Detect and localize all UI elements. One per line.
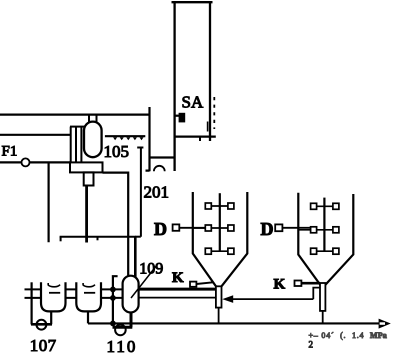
tower bottom line xyxy=(174,135,216,137)
burner E2 left wall xyxy=(298,193,320,285)
vessel 105 neck xyxy=(89,115,97,123)
svg-text:K: K xyxy=(274,277,286,293)
tank 107 body xyxy=(41,282,66,311)
pump circle 107 xyxy=(37,320,47,330)
downcomer vertical from feed line xyxy=(146,107,150,171)
tank 110 outlet elbow xyxy=(87,311,89,323)
burner E1 drop tube xyxy=(216,286,222,307)
E2 tube to main line xyxy=(322,311,324,324)
jacket top bar xyxy=(70,126,85,128)
jacket vertical lines xyxy=(71,127,82,163)
E2 nozzle row 2 xyxy=(298,227,339,233)
pointer line 109 xyxy=(131,265,157,298)
tower top edge xyxy=(172,1,213,3)
vessel 109 xyxy=(123,276,139,313)
svg-text:2: 2 xyxy=(309,340,314,350)
blower 201 crossbar xyxy=(149,156,176,158)
svg-text:D: D xyxy=(154,219,167,239)
tank 110 level wave xyxy=(83,283,95,287)
tower right wall xyxy=(209,1,211,141)
valve circle on F1 line xyxy=(22,158,30,166)
wire down to vessel 109 xyxy=(134,237,137,277)
recycle line with left arrow xyxy=(232,298,314,300)
pump circle 110 xyxy=(115,325,126,336)
tower SA column xyxy=(172,1,216,171)
junction dots on headers xyxy=(110,287,116,327)
drop wire top tick xyxy=(137,147,143,149)
tank 107 left downpipe xyxy=(31,282,33,324)
hatch teeth xyxy=(113,137,144,140)
K feed right: wire xyxy=(301,282,320,285)
svg-text:SA: SA xyxy=(182,93,204,112)
wire base box to 109 column xyxy=(103,173,129,277)
burner E1 right wall xyxy=(221,192,247,286)
main discharge line xyxy=(88,322,381,324)
wire header elbow xyxy=(135,236,141,238)
SA nozzle filled square xyxy=(175,113,185,123)
blower 201 arc xyxy=(154,166,165,171)
tank 107 level line xyxy=(49,292,60,294)
D feed right: wire xyxy=(282,227,310,229)
E1 tube to main line xyxy=(218,308,220,324)
F1 feed line with valve xyxy=(0,161,70,163)
tower inner right wall segment xyxy=(207,122,209,132)
base box outlet sub-box xyxy=(84,172,94,185)
tank 107 level wave xyxy=(48,283,60,287)
recycle step to burner E2 tube xyxy=(313,288,320,300)
burner E2 right wall xyxy=(325,194,353,285)
svg-text:F1: F1 xyxy=(2,143,18,159)
E2 nozzle row 3 xyxy=(311,248,339,254)
E2 nozzle row 1 xyxy=(311,203,339,209)
D feed left: square xyxy=(173,224,180,230)
E1 nozzle row 2 xyxy=(193,225,234,231)
E1 nozzle row 1 xyxy=(205,203,234,209)
tank 110 level line xyxy=(84,292,95,294)
header left hook xyxy=(60,237,62,242)
K feed right: square xyxy=(295,281,302,287)
K feed left: square xyxy=(190,282,196,287)
svg-text:D: D xyxy=(261,219,274,239)
vessel 109 bottom thick elbow xyxy=(113,313,133,328)
mid feed line 2 xyxy=(0,134,71,136)
burner E1 center lance xyxy=(219,193,221,251)
tank inlet pipes (two headers) xyxy=(25,289,123,298)
heater hatch line xyxy=(105,135,145,137)
feed line top (to tower downcomer) xyxy=(0,113,150,115)
E1 nozzle row 3 xyxy=(205,248,234,254)
tower left wall xyxy=(173,1,175,171)
svg-text:107: 107 xyxy=(30,336,57,355)
recycle arrowhead xyxy=(222,295,233,303)
svg-text:+– 04´ (. 1.4 MPa: +– 04´ (. 1.4 MPa xyxy=(309,331,388,340)
tank 110 body xyxy=(76,282,101,311)
vessel 105 drum xyxy=(84,122,102,158)
pump suction line 107 xyxy=(31,323,52,326)
dashed level line right of tower xyxy=(213,97,215,129)
burner E2 drop tube xyxy=(320,283,325,311)
mid horizontal header xyxy=(60,236,136,238)
thick drain line down xyxy=(85,186,88,243)
svg-text:201: 201 xyxy=(144,182,170,201)
main line arrowhead xyxy=(379,319,391,329)
riser with top elbow xyxy=(113,276,118,323)
header stub xyxy=(97,237,99,241)
svg-text:110: 110 xyxy=(107,337,138,355)
wire left riser from F1 valve line xyxy=(47,162,49,242)
burner E1 left wall xyxy=(193,192,216,286)
tank 107 outlet xyxy=(50,311,52,324)
transfer pipes 109 to burner (thick+thin) xyxy=(138,288,216,291)
svg-text:105: 105 xyxy=(104,142,130,161)
burner E2 center lance xyxy=(323,198,325,252)
D feed left: wire xyxy=(179,227,205,229)
svg-text:109: 109 xyxy=(139,260,163,277)
svg-text:K: K xyxy=(172,270,184,286)
D feed right: square xyxy=(275,224,282,231)
K feed left: wire xyxy=(196,282,213,284)
tower bottom stub xyxy=(199,137,201,141)
wire down to header elbow xyxy=(140,148,142,237)
vessel 105 base box xyxy=(70,162,103,172)
